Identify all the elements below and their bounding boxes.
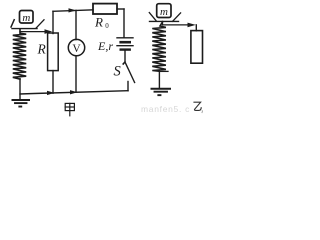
left hatch tick [11,20,14,27]
svg-text:m: m [22,12,30,24]
arrowhead (乙) [188,23,196,28]
junction at R bottom [47,91,55,95]
svg-text:R: R [94,15,103,30]
box (乙) [191,31,203,64]
svg-text:m: m [160,6,168,18]
right hatch tick [36,20,44,28]
right vertical wire to battery [123,9,125,37]
wire node to R top [52,11,54,33]
wiper arrowhead [45,29,53,34]
svg-text:manfen5. c: manfen5. c [141,104,190,114]
switch blade S [126,63,135,82]
wire platform to box (乙) [163,21,190,25]
ground (乙) [152,88,171,90]
bottom wire [20,91,128,94]
battery E,r [117,37,133,39]
spring coil (乙) [152,22,166,71]
corner wire down (乙) [195,25,197,31]
wire coil bottom to ground [19,79,21,100]
rheostat coil R' [13,29,26,79]
right hatch tick (乙) [173,13,181,21]
svg-text:0: 0 [105,22,109,30]
mass box m (figure 乙) [157,4,171,18]
voltmeter V [68,39,84,55]
platform under m [12,28,37,30]
wire to voltmeter top [75,10,77,39]
switch bottom stub [127,82,129,91]
svg-text:V: V [72,43,81,55]
mass box m (figure 甲) [20,11,34,24]
label 乙 [194,102,201,110]
junction arrow on top wire [69,8,77,12]
wire coil to ground (乙) [158,71,160,88]
svg-text:R: R [37,42,47,57]
label 甲 [65,103,74,115]
ground (left) [13,99,30,101]
junction at V bottom [70,90,78,94]
wire voltmeter bottom [75,56,77,92]
left hatch tick (乙) [149,13,156,21]
wiper arrow wire to node above R [20,31,46,33]
resistor box R [48,33,59,71]
wire R0 to right corner [117,8,124,10]
wire R bottom [52,71,54,94]
protective resistor box R0 [93,4,117,14]
svg-text:S: S [114,64,122,80]
coil bottom tail (乙) [159,70,168,72]
switch top contact hook [123,62,125,64]
svg-text:E,r: E,r [97,39,113,53]
platform (乙) [150,20,179,22]
wire battery to switch [124,51,126,62]
top wire [53,10,93,12]
